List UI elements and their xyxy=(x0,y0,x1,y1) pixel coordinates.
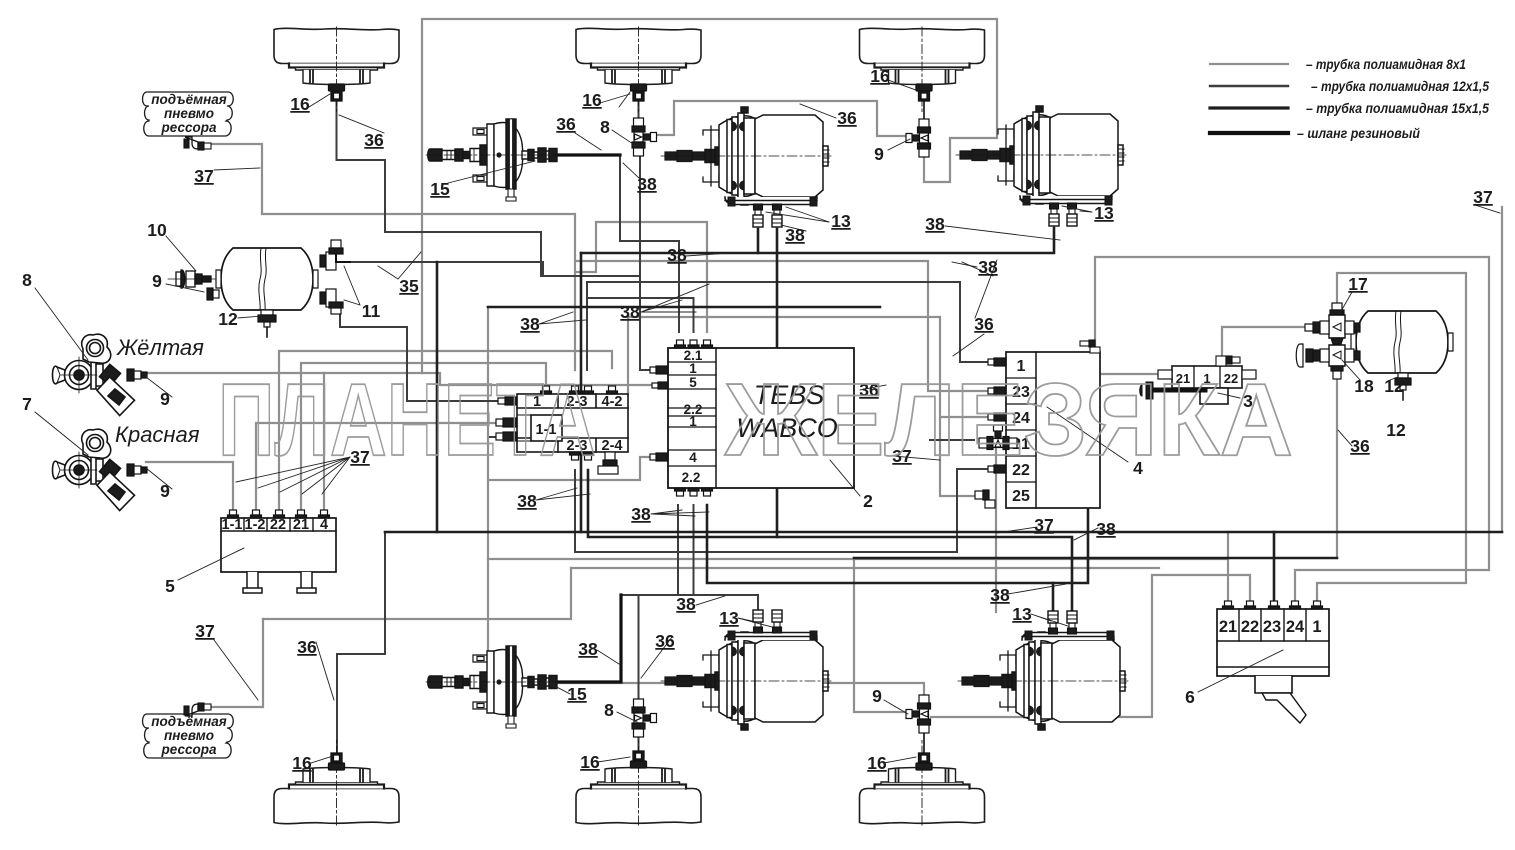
wire: run y307 (15x1.5) xyxy=(488,306,880,309)
svg-text:5: 5 xyxy=(689,375,697,390)
svg-text:38: 38 xyxy=(990,585,1010,605)
wire: axle tee line T8-T9 top xyxy=(658,101,906,136)
fitting 16 top-left xyxy=(329,84,345,101)
tee fitting 8 bottom xyxy=(632,699,657,737)
wire: long 8x1 run y559 to block6 port 21 xyxy=(488,532,1228,604)
svg-text:36: 36 xyxy=(974,314,994,334)
wire: run y282 to block4 port1 xyxy=(587,282,1006,362)
wheel drum bottom-left xyxy=(274,740,399,825)
fitting 13 pair bottom-middle chamber xyxy=(753,610,763,633)
svg-text:ЖЕЛЕЗЯКА: ЖЕЛЕЗЯКА xyxy=(724,362,1293,477)
wire: yellow control line to TEBS port 5 xyxy=(146,373,656,385)
svg-text:16: 16 xyxy=(867,753,887,773)
svg-text:1: 1 xyxy=(689,361,697,376)
svg-text:рессора: рессора xyxy=(161,742,217,757)
brake chamber (diaphragm) top xyxy=(426,119,558,201)
svg-text:16: 16 xyxy=(290,94,310,114)
svg-text:24: 24 xyxy=(1286,618,1305,636)
tee fitting 17 xyxy=(1305,303,1360,344)
svg-text:9: 9 xyxy=(160,481,170,501)
wire: top frame polyamide 8x1 tube (35) xyxy=(422,19,997,373)
wire: block5 port 22 to manifold 4-2 top xyxy=(279,351,612,510)
wire: wheel2 fitting to T8 xyxy=(638,101,640,118)
wire: far-right riser (37) xyxy=(1501,207,1503,532)
wire: T8b top riser xyxy=(638,595,640,698)
wire: lift bellows rear line (37) xyxy=(205,619,263,707)
svg-text:Жёлтая: Жёлтая xyxy=(116,335,204,360)
wire: block5 port 1-2 to manifold 1-1 xyxy=(256,423,517,510)
wire: manifold 1-1 lower port to riser x488 xyxy=(490,436,517,438)
svg-text:37: 37 xyxy=(194,166,213,186)
svg-text:9: 9 xyxy=(152,271,162,291)
wire: T8 to TEBS port 1 xyxy=(640,156,654,370)
fitting 16 bottom-right xyxy=(916,753,932,770)
svg-text:4: 4 xyxy=(320,517,328,533)
wire: hose drop to TEBS top 678 xyxy=(620,155,679,332)
svg-text:пневмо: пневмо xyxy=(164,106,214,121)
svg-text:36: 36 xyxy=(655,631,675,651)
wire: block5 port 21 to manifold top xyxy=(301,363,546,510)
svg-text:38: 38 xyxy=(667,245,687,265)
tee fitting at block4 port 21 xyxy=(979,425,1017,450)
svg-text:8: 8 xyxy=(604,700,614,720)
release valve 3 xyxy=(1158,366,1256,404)
TEBS port stubs top/bottom xyxy=(675,340,686,348)
coupling head yellow xyxy=(53,334,136,416)
wire: valve3 to T17 xyxy=(1222,327,1313,358)
svg-text:16: 16 xyxy=(292,753,312,773)
tee fitting 9 top xyxy=(906,119,931,157)
svg-text:22: 22 xyxy=(1241,618,1259,636)
wire: run y558 T18 to T9b xyxy=(854,557,1337,560)
wire: long 8x1 run y568 xyxy=(571,567,1159,569)
wire: run y683 to T9b xyxy=(488,683,924,697)
callout bubble front (подъёмная пневмо рессора) xyxy=(143,92,234,136)
svg-text:36: 36 xyxy=(364,130,384,150)
wire: x581 drop xyxy=(580,253,583,532)
wire: lift bellows front line (37) xyxy=(205,144,575,370)
elbow fitting at rear bubble xyxy=(184,703,211,716)
fitting 16 top-middle xyxy=(631,84,647,101)
svg-text:11: 11 xyxy=(362,301,381,321)
spring brake chamber bottom-middle xyxy=(661,631,831,730)
drain/release block 6 xyxy=(1217,609,1329,723)
wire: block6 port23 tap xyxy=(1273,532,1276,604)
elbow fittings 11 on reservoir right xyxy=(320,240,350,314)
wire: bottom-left wheel line xyxy=(337,532,385,752)
tee fitting 9 bottom xyxy=(906,695,931,733)
svg-text:6: 6 xyxy=(1185,687,1195,707)
svg-text:36: 36 xyxy=(1350,436,1370,456)
svg-text:– трубка полиамидная 12х1,5: – трубка полиамидная 12х1,5 xyxy=(1311,78,1489,94)
coupling outlet fittings 9 xyxy=(127,369,147,476)
hose: top diaphragm chamber xyxy=(557,153,620,156)
svg-text:38: 38 xyxy=(620,302,640,322)
wire: run y595 xyxy=(621,595,758,614)
svg-text:18: 18 xyxy=(1354,376,1374,396)
svg-text:4-2: 4-2 xyxy=(602,394,623,410)
wire: valve3 left port xyxy=(1100,373,1158,375)
svg-text:– трубка полиамидная 15х1,5: – трубка полиамидная 15х1,5 xyxy=(1306,100,1489,116)
wire: bottom-right chamber fitting riser xyxy=(1052,583,1055,614)
callout bubble rear (подъёмная пневмо рессора) xyxy=(143,714,234,758)
svg-text:10: 10 xyxy=(147,220,167,240)
svg-text:12: 12 xyxy=(1386,420,1406,440)
wire: bottom wheel stems xyxy=(639,732,925,752)
name labels yellow/red xyxy=(115,335,204,447)
drain fitting 12 under rear reservoir xyxy=(1395,373,1411,400)
tee fitting 8 top xyxy=(632,118,657,156)
fitting 16 bottom-left xyxy=(329,753,345,770)
wire: branch to TEBS top 693.5 xyxy=(587,298,694,332)
svg-text:38: 38 xyxy=(978,257,998,277)
svg-text:2.2: 2.2 xyxy=(682,470,701,485)
spring brake chamber bottom-right xyxy=(958,631,1128,730)
manifold block (port block near TEBS) xyxy=(517,394,628,452)
svg-text:13: 13 xyxy=(1012,604,1032,624)
fitting 13 pair bottom-right chamber xyxy=(1048,611,1058,634)
coupling head red xyxy=(53,429,136,511)
wire: T17 loop to block6 port1 xyxy=(1317,273,1466,604)
svg-text:36: 36 xyxy=(297,637,317,657)
wire: TEBS bottom ports to run y595 xyxy=(678,505,694,595)
svg-text:38: 38 xyxy=(676,594,696,614)
wire: T9b side to T18 drop xyxy=(854,558,906,712)
wire: wheel3 fitting to T9 xyxy=(923,101,925,119)
elbow fitting at front bubble xyxy=(184,137,211,150)
wire: riser x488 xyxy=(487,307,489,683)
svg-text:8: 8 xyxy=(600,117,610,137)
wire: block4 port21 drop (37) xyxy=(995,446,997,612)
svg-text:2: 2 xyxy=(863,491,873,511)
wire: x437 reservoir drop xyxy=(436,262,439,532)
drain fitting 12 under reservoir xyxy=(258,310,276,337)
valve3 top elbow xyxy=(1216,356,1240,366)
svg-text:37: 37 xyxy=(195,621,214,641)
svg-text:15: 15 xyxy=(567,684,587,704)
wire: run y537 to bottom-right chamber xyxy=(588,470,1072,612)
svg-text:подъёмная: подъёмная xyxy=(151,92,227,107)
tee fitting 18 with hand valve xyxy=(1296,344,1360,379)
svg-text:9: 9 xyxy=(874,144,884,164)
svg-text:– шланг резиновый: – шланг резиновый xyxy=(1297,125,1420,141)
TEBS WABCO modulator unit 2 xyxy=(668,348,854,488)
svg-text:23: 23 xyxy=(1263,618,1281,636)
wire: run y317 to block4 port 24 and port 25 xyxy=(628,317,1006,496)
svg-text:21: 21 xyxy=(293,517,309,533)
svg-text:38: 38 xyxy=(1096,519,1116,539)
wire: reservoir lower elbow to manifold port1 xyxy=(340,312,517,401)
svg-text:9: 9 xyxy=(160,389,170,409)
watermark ПЛАНЕТА ЖЕЛЕЗЯКА xyxy=(218,362,1293,477)
svg-text:13: 13 xyxy=(831,211,851,231)
air reservoir 12 (front) xyxy=(216,248,318,310)
svg-text:17: 17 xyxy=(1348,274,1367,294)
fitting 10 on reservoir xyxy=(168,270,216,288)
wire: TEBS port4 jog xyxy=(488,457,650,480)
svg-text:8: 8 xyxy=(22,270,32,290)
svg-text:16: 16 xyxy=(580,752,600,772)
brake chamber (diaphragm) bottom xyxy=(426,646,558,728)
wire: run y552 to block4 port22 xyxy=(575,469,1006,552)
fitting 13 pair top-middle chamber xyxy=(753,204,763,227)
wire: red supply line to block 5 xyxy=(146,462,233,510)
svg-text:13: 13 xyxy=(1094,203,1114,223)
TEBS left port fittings xyxy=(650,366,668,461)
elbow at block4 port 25 xyxy=(975,490,995,508)
svg-text:16: 16 xyxy=(870,66,890,86)
wire: run y261 to block4 port 23 xyxy=(575,261,1006,391)
svg-text:1: 1 xyxy=(689,414,697,429)
svg-text:рессора: рессора xyxy=(161,120,217,135)
svg-text:ПЛАНЕТА: ПЛАНЕТА xyxy=(218,362,596,477)
wheel drum top-left xyxy=(274,27,399,112)
wheel drum top-middle xyxy=(576,27,701,112)
svg-text:16: 16 xyxy=(582,90,602,110)
svg-text:38: 38 xyxy=(785,225,805,245)
wheel drum top-right xyxy=(860,27,985,112)
svg-text:пневмо: пневмо xyxy=(164,728,214,743)
svg-text:– трубка полиамидная 8х1: – трубка полиамидная 8х1 xyxy=(1306,56,1466,72)
spring brake chamber top-right xyxy=(956,106,1126,205)
wire: block5 port 4 riser xyxy=(323,373,325,510)
svg-text:12: 12 xyxy=(218,309,238,329)
svg-text:1: 1 xyxy=(1312,618,1321,636)
TEBS WABCO lettering xyxy=(736,380,838,443)
wire: reservoir upper elbow to TEBS port1 feed xyxy=(350,262,640,276)
wire: top chamber fitting risers xyxy=(758,229,777,537)
svg-text:38: 38 xyxy=(925,214,945,234)
svg-text:12: 12 xyxy=(1384,376,1404,396)
svg-text:25: 25 xyxy=(1012,488,1030,505)
block4 left port fittings xyxy=(988,358,1006,473)
wire: T9b to block6 port 22 xyxy=(931,575,1250,717)
leader lines xyxy=(309,94,330,107)
wire: run y583 TEBS 2.2 to block4 xyxy=(707,505,1088,583)
svg-text:21: 21 xyxy=(1219,618,1237,636)
spring brake chamber top-middle xyxy=(661,107,831,206)
wire: front bellows branch to TEBS 2.1 xyxy=(575,222,707,332)
legend xyxy=(1210,56,1489,141)
svg-text:38: 38 xyxy=(520,314,540,334)
svg-text:9: 9 xyxy=(872,686,882,706)
svg-text:38: 38 xyxy=(637,174,657,194)
wire: wheel1 drop line xyxy=(337,99,542,276)
svg-text:38: 38 xyxy=(578,639,598,659)
svg-text:1-1: 1-1 xyxy=(222,517,243,533)
svg-text:Красная: Красная xyxy=(115,422,200,447)
svg-text:35: 35 xyxy=(399,276,419,296)
svg-text:5: 5 xyxy=(165,576,175,596)
elbow fitting on block4 top xyxy=(1080,340,1100,353)
svg-text:1-2: 1-2 xyxy=(245,517,266,533)
svg-text:13: 13 xyxy=(719,608,739,628)
manifold port stubs xyxy=(541,386,552,394)
wire: T18 rear tank drop 36 xyxy=(1336,364,1338,558)
hose: bottom diaphragm chamber xyxy=(557,595,621,682)
fitting 13 pair top-right chamber xyxy=(1049,203,1059,226)
wheel drum bottom-middle xyxy=(576,740,701,825)
manifold left port fittings xyxy=(496,397,517,441)
svg-text:37: 37 xyxy=(1473,187,1492,207)
svg-text:36: 36 xyxy=(556,114,576,134)
wheel drum bottom-right xyxy=(860,740,985,825)
distribution block 4 xyxy=(1006,352,1100,508)
fitting 9 on reservoir lower-left xyxy=(207,288,219,300)
svg-text:7: 7 xyxy=(22,394,32,414)
wire: manifold bottom drop to y552 xyxy=(574,470,576,552)
distribution block 5 xyxy=(221,518,336,593)
svg-text:38: 38 xyxy=(631,504,651,524)
valve3 handle xyxy=(1140,382,1205,399)
svg-text:38: 38 xyxy=(517,491,537,511)
fitting 16 bottom-middle xyxy=(631,751,647,768)
wire: run y532 (15x1.5) xyxy=(385,531,1502,534)
svg-text:22: 22 xyxy=(270,517,286,533)
wire: run y619 xyxy=(263,568,571,619)
svg-text:36: 36 xyxy=(837,108,857,128)
air reservoir 12 (rear) xyxy=(1351,311,1453,373)
wire: manifold top riser 588 xyxy=(586,282,588,370)
svg-text:37: 37 xyxy=(1034,515,1053,535)
fitting 16 top-right xyxy=(916,84,932,101)
manifold bottom elbow 2-4 xyxy=(598,452,618,474)
svg-text:4: 4 xyxy=(689,450,697,465)
wire: run y253 (15x1.5) xyxy=(581,228,1054,253)
wire: right outer frame to block6 port24 xyxy=(1095,257,1489,604)
svg-text:15: 15 xyxy=(430,179,450,199)
wire: block4 port21 line xyxy=(930,439,974,441)
